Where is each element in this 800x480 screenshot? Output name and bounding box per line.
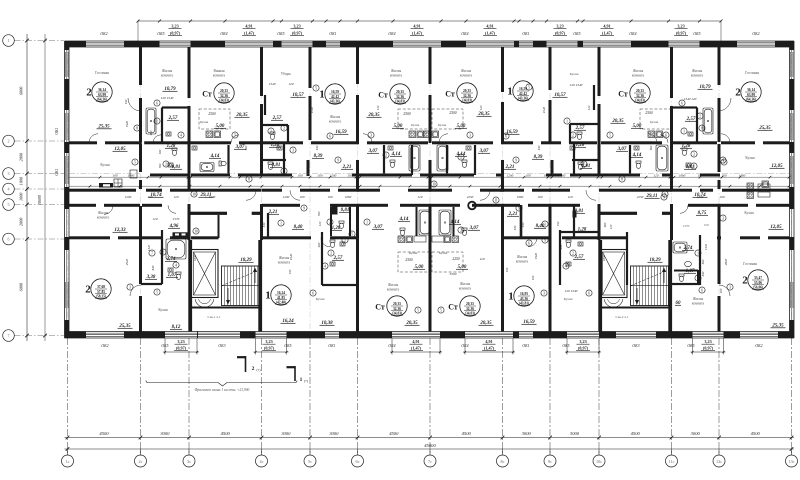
svg-text:1: 1 (280, 221, 282, 225)
svg-text:2250: 2250 (209, 173, 216, 177)
svg-text:Кухня: Кухня (744, 211, 754, 215)
svg-text:12c: 12c (716, 459, 722, 464)
svg-text:760: 760 (158, 163, 162, 168)
right exterior wall (793, 41, 795, 338)
svg-text:3000: 3000 (570, 431, 580, 436)
svg-text:(0,97): (0,97) (264, 346, 275, 351)
svg-text:5: 5 (351, 232, 353, 236)
svg-text:2250: 2250 (637, 195, 644, 199)
svg-text:100: 100 (719, 288, 723, 293)
svg-text:2250: 2250 (452, 257, 459, 261)
elevator door arc left (195, 299, 214, 307)
svg-text:(64,36): (64,36) (97, 97, 108, 101)
svg-text:1060: 1060 (345, 195, 352, 199)
svg-text:57,85: 57,85 (97, 290, 105, 294)
svg-text:Жилая: Жилая (517, 255, 528, 259)
svg-text:120: 120 (587, 105, 591, 110)
svg-text:Кухня: Кухня (745, 156, 755, 160)
svg-text:530: 530 (315, 145, 319, 150)
svg-text:1800: 1800 (193, 255, 197, 262)
svg-text:2250: 2250 (401, 173, 408, 177)
svg-text:1200: 1200 (283, 195, 290, 199)
svg-text:(43,36): (43,36) (518, 96, 529, 100)
svg-text:5: 5 (417, 308, 419, 312)
svg-text:2: 2 (742, 274, 748, 286)
svg-text:1940: 1940 (125, 121, 129, 128)
svg-text:32,36: 32,36 (393, 307, 401, 311)
svg-text:4500: 4500 (221, 431, 231, 436)
svg-text:ОК2: ОК2 (752, 32, 759, 36)
bottom dimension line 4500/3000 chain (65, 437, 795, 439)
svg-text:Кухня: Кухня (316, 297, 325, 301)
svg-text:16,59: 16,59 (331, 90, 339, 94)
svg-text:6: 6 (505, 134, 507, 138)
svg-text:1: 1 (319, 88, 325, 100)
svg-text:2: 2 (283, 126, 285, 130)
svg-text:4500: 4500 (631, 431, 641, 436)
svg-text:1060: 1060 (739, 173, 746, 177)
svg-text:100: 100 (531, 275, 535, 280)
fixtures St2 (409, 145, 420, 171)
svg-text:100: 100 (538, 195, 543, 199)
svg-text:Сек.1 л.1: Сек.1 л.1 (207, 315, 220, 319)
svg-text:530: 530 (537, 145, 541, 150)
svg-text:1: 1 (693, 164, 695, 168)
fixtures St4 (656, 145, 668, 171)
svg-text:1: 1 (683, 129, 685, 133)
svg-text:(64,36): (64,36) (746, 97, 757, 101)
svg-text:4,91: 4,91 (412, 339, 419, 344)
svg-text:16,24: 16,24 (277, 291, 285, 295)
svg-text:комната: комната (516, 259, 529, 263)
stair arrows left (254, 270, 256, 283)
svg-text:42,42: 42,42 (519, 92, 527, 96)
svg-text:2c: 2c (139, 459, 143, 464)
svg-text:(43,81): (43,81) (519, 301, 530, 305)
svg-text:1570: 1570 (173, 217, 180, 221)
svg-text:комната: комната (329, 119, 342, 123)
svg-text:2: 2 (330, 251, 332, 255)
svg-text:650: 650 (149, 130, 153, 135)
svg-text:3: 3 (8, 171, 10, 176)
svg-text:3: 3 (722, 216, 724, 220)
svg-text:2: 2 (86, 86, 92, 98)
svg-text:530: 530 (262, 222, 266, 227)
svg-text:6: 6 (701, 288, 703, 292)
svg-text:2250: 2250 (467, 195, 474, 199)
svg-text:9: 9 (663, 195, 665, 199)
svg-text:2000: 2000 (19, 152, 24, 161)
svg-text:(7): (7) (304, 379, 308, 383)
svg-text:530: 530 (521, 222, 525, 227)
svg-text:7: 7 (151, 251, 153, 255)
svg-text:Сек.2 л.1: Сек.2 л.1 (615, 315, 628, 319)
svg-text:3,23: 3,23 (556, 24, 563, 29)
svg-text:2: 2 (572, 133, 574, 137)
svg-text:2: 2 (8, 139, 10, 144)
svg-text:ОК5: ОК5 (573, 32, 580, 36)
svg-text:Кухня: Кухня (158, 308, 168, 312)
svg-text:(1,47): (1,47) (484, 346, 495, 351)
svg-text:3000: 3000 (160, 431, 170, 436)
fixtures bath apt2-right top (703, 108, 713, 134)
bearing wall axis8 x502.5 (501, 47, 504, 92)
svg-text:3,23: 3,23 (677, 24, 684, 29)
svg-text:10c: 10c (596, 459, 602, 464)
svg-text:1200: 1200 (697, 195, 704, 199)
svg-text:1570: 1570 (209, 195, 216, 199)
top exterior wall with windows (65, 40, 795, 42)
svg-text:(7): (7) (257, 368, 261, 372)
svg-text:960: 960 (603, 222, 607, 227)
svg-text:2500: 2500 (645, 111, 652, 115)
bearing wall axis3 x189 (188, 47, 191, 98)
grid axis bubbles left (3, 35, 15, 47)
svg-text:1: 1 (265, 289, 271, 301)
svg-text:Жилая: Жилая (330, 115, 341, 119)
svg-text:2: 2 (697, 276, 699, 280)
south band pod partitions (161, 230, 163, 284)
svg-text:Ст: Ст (445, 89, 455, 98)
svg-text:Ванная: Ванная (213, 69, 224, 73)
svg-text:120 1340: 120 1340 (570, 83, 583, 87)
svg-text:20,35: 20,35 (466, 302, 474, 306)
svg-text:4500: 4500 (751, 431, 761, 436)
svg-text:960: 960 (244, 145, 248, 150)
svg-text:8: 8 (621, 177, 623, 181)
svg-text:120 1340: 120 1340 (565, 289, 578, 293)
bearing wall axis6 x357.5 (356, 47, 359, 84)
svg-text:32,36: 32,36 (463, 94, 471, 98)
svg-text:180: 180 (158, 149, 162, 154)
svg-text:2500: 2500 (403, 112, 410, 116)
svg-text:3,23: 3,23 (265, 339, 272, 344)
svg-text:2: 2 (85, 283, 91, 295)
svg-text:Жилая: Жилая (98, 211, 109, 215)
svg-text:1000: 1000 (19, 176, 24, 185)
svg-text:100: 100 (318, 173, 323, 177)
svg-text:1200: 1200 (507, 173, 514, 177)
svg-text:Жилая: Жилая (633, 69, 644, 73)
svg-text:3,23: 3,23 (171, 24, 178, 29)
partition walls bath pod apt2 left (161, 108, 163, 143)
svg-text:4,91: 4,91 (413, 24, 420, 29)
svg-text:(0,97): (0,97) (170, 31, 181, 36)
svg-text:1060: 1060 (173, 173, 180, 177)
svg-text:1000: 1000 (19, 192, 24, 201)
svg-text:6: 6 (329, 134, 331, 138)
svg-text:Жилая: Жилая (461, 69, 472, 73)
st bath partitions top band (227, 145, 229, 175)
svg-text:100: 100 (288, 269, 292, 274)
svg-text:6: 6 (156, 101, 158, 105)
svg-text:5: 5 (315, 86, 317, 90)
svg-text:3000: 3000 (281, 431, 291, 436)
svg-text:Кухня: Кухня (411, 123, 420, 127)
svg-text:120: 120 (479, 257, 484, 261)
svg-text:2250: 2250 (453, 173, 460, 177)
svg-text:37,68: 37,68 (97, 285, 105, 289)
svg-text:1: 1 (697, 251, 699, 255)
svg-text:комната: комната (692, 301, 705, 305)
svg-text:ОК5: ОК5 (562, 344, 569, 348)
svg-text:150: 150 (124, 99, 128, 104)
svg-text:100: 100 (298, 173, 303, 177)
svg-text:Жилая: Жилая (693, 297, 704, 301)
fixtures bath apt2-left top (146, 108, 156, 134)
svg-text:150: 150 (556, 221, 560, 226)
svg-text:120: 120 (153, 217, 158, 221)
svg-text:1940: 1940 (542, 106, 546, 113)
fixtures bottom-left bath (166, 239, 186, 259)
svg-text:ОК2: ОК2 (100, 32, 107, 36)
svg-text:120: 120 (288, 82, 293, 86)
svg-text:20,35: 20,35 (220, 89, 228, 93)
svg-text:ОК1: ОК1 (55, 127, 59, 134)
svg-text:(1,47): (1,47) (412, 31, 423, 36)
svg-text:6: 6 (312, 291, 314, 295)
svg-text:Кухня: Кухня (409, 251, 418, 255)
bearing wall axis10 x599 (598, 47, 601, 96)
svg-text:1940: 1940 (310, 106, 314, 113)
partition walls bath pod apt2 right (696, 108, 698, 143)
svg-text:16,95: 16,95 (520, 292, 528, 296)
svg-text:комната: комната (161, 73, 174, 77)
svg-text:6: 6 (681, 101, 683, 105)
svg-text:комната: комната (387, 287, 400, 291)
svg-text:ОК1: ОК1 (522, 344, 529, 348)
bottom total dimension 45000 (65, 448, 795, 450)
grid axis bubbles bottom (67, 449, 69, 455)
svg-text:(34,03): (34,03) (392, 311, 403, 315)
svg-text:120: 120 (479, 105, 483, 110)
corridor north wall y190 (69, 189, 136, 192)
svg-text:(0,97): (0,97) (292, 31, 303, 36)
svg-text:63,99: 63,99 (98, 93, 106, 97)
svg-text:36,14: 36,14 (98, 88, 106, 92)
svg-text:Жилая: Жилая (391, 69, 402, 73)
svg-text:ОК1: ОК1 (522, 32, 529, 36)
svg-text:11: 11 (494, 198, 498, 202)
svg-text:3: 3 (729, 285, 731, 289)
svg-text:120: 120 (568, 195, 573, 199)
svg-text:1940: 1940 (289, 253, 293, 260)
kitchen dashed zones St units (199, 109, 230, 129)
svg-text:18600: 18600 (37, 195, 42, 205)
svg-text:36,14: 36,14 (747, 88, 755, 92)
svg-text:43,36: 43,36 (520, 297, 528, 301)
svg-text:Кухня: Кухня (200, 120, 209, 124)
kitchen counter apt2 left (99, 183, 113, 188)
svg-text:11c: 11c (669, 459, 675, 464)
svg-text:Уборн.: Уборн. (281, 72, 292, 76)
svg-text:32,36: 32,36 (636, 94, 644, 98)
corridor recessed walls by stairs y213 (189, 212, 227, 215)
svg-text:1060: 1060 (559, 173, 566, 177)
svg-text:100: 100 (348, 173, 353, 177)
wc room next to left elevator (218, 215, 220, 238)
svg-text:(58,35): (58,35) (96, 294, 107, 298)
svg-text:8: 8 (701, 126, 703, 130)
svg-text:1: 1 (508, 290, 514, 302)
svg-text:120: 120 (609, 224, 613, 229)
left grid axis horizontals (15, 40, 65, 42)
svg-text:3: 3 (129, 285, 131, 289)
svg-text:(1,47): (1,47) (602, 31, 613, 36)
svg-text:9c: 9c (548, 459, 552, 464)
staircase right (631, 266, 669, 306)
svg-text:2500: 2500 (208, 112, 215, 116)
svg-text:(56,06): (56,06) (753, 285, 764, 289)
svg-text:100: 100 (526, 173, 531, 177)
svg-text:(0,97): (0,97) (676, 31, 687, 36)
svg-text:Жилая: Жилая (279, 256, 290, 260)
fixtures bath St1 (200, 163, 214, 172)
svg-text:1: 1 (507, 85, 513, 97)
svg-text:комната: комната (97, 215, 110, 219)
svg-text:2: 2 (699, 114, 701, 118)
svg-text:1060: 1060 (679, 173, 686, 177)
door swing arcs (128, 98, 141, 111)
bearing wall axis11 x671.5 (670, 47, 673, 98)
svg-text:4: 4 (180, 133, 182, 137)
svg-text:3,23: 3,23 (704, 339, 711, 344)
svg-text:9: 9 (337, 158, 339, 162)
svg-text:4: 4 (8, 187, 10, 192)
svg-text:1: 1 (566, 119, 568, 123)
fragment note with brace (148, 382, 218, 384)
svg-text:4,91: 4,91 (603, 24, 610, 29)
svg-text:Гостиная: Гостиная (95, 71, 109, 75)
svg-text:комната: комната (632, 73, 645, 77)
svg-text:2: 2 (460, 155, 462, 159)
svg-text:2: 2 (572, 251, 574, 255)
svg-text:(0,97): (0,97) (578, 346, 589, 351)
svg-text:120: 120 (418, 195, 423, 199)
svg-text:53,06: 53,06 (754, 281, 762, 285)
svg-text:Жилая: Жилая (692, 69, 703, 73)
svg-text:4c: 4c (260, 459, 264, 464)
svg-text:Кухня: Кухня (570, 72, 579, 76)
apartment1R hall walls south (520, 205, 523, 238)
svg-text:63,99: 63,99 (747, 93, 755, 97)
svg-text:ОК5: ОК5 (157, 32, 164, 36)
svg-text:120: 120 (376, 105, 380, 110)
svg-text:3,23: 3,23 (177, 339, 184, 344)
kitchen row St bottom-left (398, 236, 405, 243)
svg-text:42,42: 42,42 (331, 95, 339, 99)
svg-text:100: 100 (156, 173, 161, 177)
svg-text:100: 100 (148, 195, 153, 199)
svg-text:4,91: 4,91 (485, 339, 492, 344)
svg-text:ОК5: ОК5 (277, 32, 284, 36)
svg-text:10: 10 (194, 229, 198, 233)
svg-text:4: 4 (175, 263, 177, 267)
svg-text:45000: 45000 (424, 443, 436, 448)
svg-text:1340: 1340 (269, 82, 276, 86)
svg-text:ОК1: ОК1 (329, 32, 336, 36)
svg-text:9: 9 (544, 238, 546, 242)
svg-text:(1,47): (1,47) (411, 346, 422, 351)
svg-text:33,47: 33,47 (754, 276, 762, 280)
kitchen appliances right apt2 (747, 183, 754, 190)
svg-text:3,23: 3,23 (579, 339, 586, 344)
svg-text:ОК2: ОК2 (101, 344, 108, 348)
svg-text:3500: 3500 (450, 272, 457, 276)
svg-text:Гостиная: Гостиная (743, 262, 757, 266)
partition walls pod x550-599 (593, 85, 595, 110)
bearing wall axis2 x140.5 (139, 47, 142, 85)
svg-text:(42,40): (42,40) (276, 300, 287, 304)
bearing wall axis12 x719 (718, 47, 721, 85)
svg-text:комната: комната (213, 73, 226, 77)
svg-text:1: 1 (156, 119, 158, 123)
svg-text:ОК4: ОК4 (388, 32, 395, 36)
svg-text:Жилая: Жилая (460, 282, 471, 286)
svg-text:560: 560 (701, 259, 705, 264)
svg-text:2: 2 (165, 162, 167, 166)
left total dimension 18600 (44, 34, 46, 341)
interior wall row y141 north rooms bottom (69, 141, 97, 144)
svg-text:1060: 1060 (517, 195, 524, 199)
svg-text:9: 9 (303, 206, 305, 210)
svg-text:ОК5: ОК5 (693, 32, 700, 36)
svg-text:1: 1 (544, 222, 546, 226)
corridor dimension lines with ticks (69, 176, 789, 178)
svg-text:Ст: Ст (448, 302, 458, 311)
svg-text:1: 1 (344, 238, 346, 242)
svg-text:1570: 1570 (683, 224, 690, 228)
svg-text:2: 2 (329, 220, 331, 224)
svg-text:32,36: 32,36 (396, 95, 404, 99)
svg-text:4,91: 4,91 (245, 24, 252, 29)
stair arrows right (663, 270, 665, 283)
svg-text:6000: 6000 (19, 86, 24, 95)
left dimension chain 6000/2000/1000 (26, 34, 28, 341)
svg-text:5: 5 (440, 308, 442, 312)
svg-text:2500: 2500 (449, 111, 456, 115)
svg-text:4: 4 (324, 264, 326, 268)
svg-text:3000: 3000 (522, 431, 532, 436)
svg-text:2: 2 (693, 152, 695, 156)
fixtures bottom pod x322-357 (330, 240, 335, 242)
svg-text:2: 2 (252, 366, 255, 372)
svg-text:ОК1: ОК1 (55, 168, 59, 175)
svg-text:3: 3 (292, 148, 294, 152)
kitchen row St bottom-right (452, 236, 459, 243)
svg-text:100: 100 (328, 195, 333, 199)
svg-text:1320: 1320 (704, 244, 708, 251)
svg-text:1c: 1c (66, 459, 70, 464)
svg-text:Ст: Ст (378, 90, 388, 99)
svg-text:100: 100 (300, 195, 305, 199)
svg-text:2000: 2000 (19, 217, 24, 226)
svg-text:Кухня: Кухня (439, 251, 448, 255)
svg-text:комната: комната (460, 73, 473, 77)
svg-text:120: 120 (355, 213, 359, 218)
svg-text:комната: комната (691, 73, 704, 77)
svg-text:4: 4 (722, 158, 724, 162)
svg-text:Ст: Ст (618, 89, 628, 98)
staircase left (222, 266, 260, 306)
svg-text:4500: 4500 (99, 431, 109, 436)
bearing wall axis4 x261.5 (260, 47, 263, 96)
svg-text:6: 6 (8, 237, 10, 242)
svg-text:ОК4: ОК4 (220, 32, 227, 36)
svg-text:8: 8 (248, 177, 250, 181)
svg-text:10: 10 (192, 192, 196, 196)
svg-text:840: 840 (151, 265, 155, 270)
